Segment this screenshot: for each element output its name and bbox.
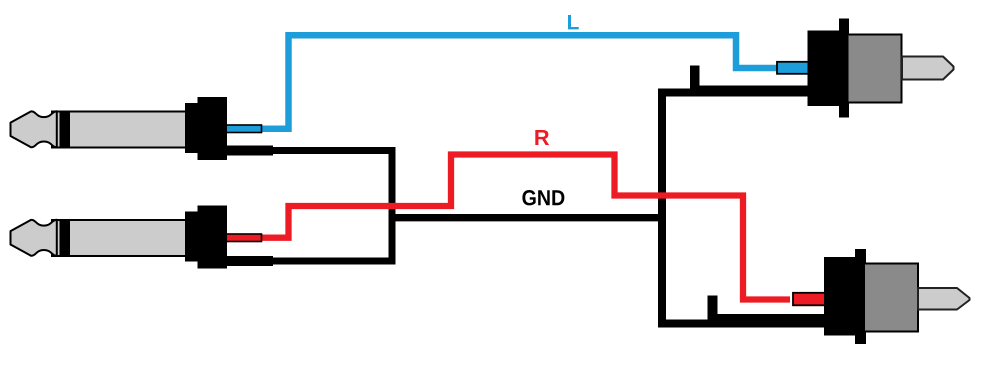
wire GND branch (horizontal bus to RCA side) (390, 214, 662, 221)
solder stub (bottom RCA ground tab) (708, 296, 718, 326)
solder stub (top RCA ground tab) (690, 66, 700, 96)
sleeve lead (bottom jack, black) (226, 256, 273, 266)
RCA plug P2 (bottom-right) (824, 249, 970, 344)
RCA plug P1 (top-right) (808, 19, 954, 118)
label L (blue) (568, 15, 579, 29)
wire L (blue, left channel) (258, 35, 790, 128)
tip terminal (top jack, blue) (225, 125, 262, 133)
wire R (red, right channel) (258, 155, 790, 300)
jack plug J2 (bottom-left 1/4 inch TS plug) (11, 206, 228, 269)
jack plug J1 (top-left 1/4 inch TS plug) (11, 97, 228, 160)
shield sleeve lead (top RCA, black) (690, 86, 812, 97)
wire RCA shield drop (right vertical + to both RCA grounds) (662, 93, 716, 324)
wire GND bus (jack sleeves to RCA shields) (250, 151, 392, 262)
tip terminal (bottom jack, red) (225, 234, 262, 242)
sleeve lead (top jack, black) (226, 146, 273, 156)
center terminal (bottom RCA, red) (793, 293, 825, 306)
label GND (black) (522, 190, 564, 205)
shield sleeve lead (bottom RCA, black) (708, 314, 827, 328)
label R (red) (535, 130, 549, 145)
center terminal (top RCA, blue) (777, 62, 810, 74)
